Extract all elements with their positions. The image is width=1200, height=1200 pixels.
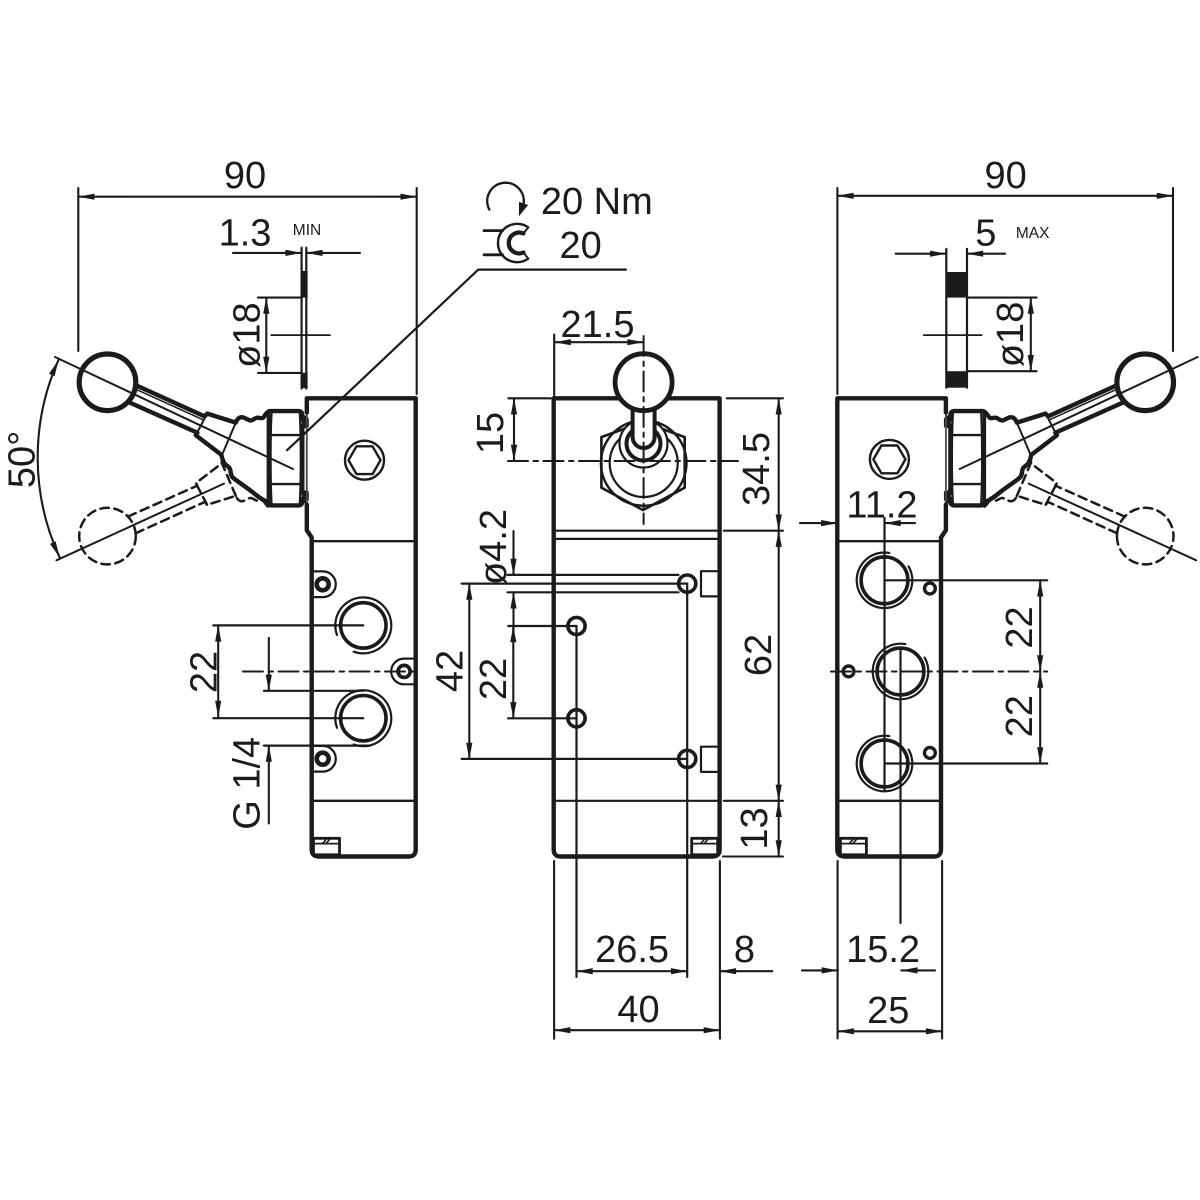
dim diameter 18 right view bbox=[967, 297, 1037, 299]
left view panel hole centre line bbox=[271, 334, 330, 336]
right view body joint line lower bbox=[837, 800, 941, 802]
torque symbol arc bbox=[487, 183, 524, 210]
left view horizontal centerline bbox=[243, 671, 416, 673]
right view hex socket screw bbox=[870, 440, 909, 479]
left view hex socket screw bbox=[345, 441, 384, 480]
middle view toggle stem bbox=[633, 404, 655, 448]
right view port 1 bold bore circle bbox=[861, 557, 908, 604]
middle view valve body outline bbox=[554, 398, 720, 856]
right view port 1 centre line bbox=[885, 579, 1048, 581]
right view horizontal centerline bbox=[831, 671, 1047, 673]
right view port 3 thread arc bbox=[857, 736, 913, 792]
nut front face edge bbox=[267, 414, 270, 503]
dim 25 bbox=[838, 1030, 942, 1032]
left view: 50 degree swing arc bbox=[38, 360, 60, 557]
right view port 3 centre line bbox=[885, 762, 1048, 764]
middle view screw hole ring bbox=[679, 750, 696, 767]
svg-text:22: 22 bbox=[183, 651, 225, 693]
right view middle port vertical centre line bbox=[899, 649, 901, 923]
right view screw hole ring bbox=[925, 583, 936, 594]
leader line from wrench to nut bbox=[287, 270, 626, 451]
dim 13 bbox=[723, 855, 783, 857]
lever axis centerline through ball to pivot bbox=[55, 357, 293, 469]
left view port 2 centre line bbox=[213, 717, 363, 719]
nut clamp tabs against panel bbox=[302, 415, 307, 425]
left view panel section fill lower bbox=[301, 373, 308, 388]
lever alternate position axis centerline bbox=[57, 484, 225, 561]
dim 11.2 bbox=[800, 522, 837, 524]
middle view diameter 4.2 tangent lines bbox=[508, 574, 679, 576]
right view mounting panel outline bbox=[945, 249, 947, 388]
right view panel hole centre line bbox=[924, 334, 982, 336]
right view lever assembly (mirrored) bbox=[946, 354, 1198, 564]
left view middle screw boss tab on right edge bbox=[391, 659, 414, 685]
svg-text:1.3: 1.3 bbox=[219, 213, 272, 255]
svg-text:15: 15 bbox=[470, 412, 512, 454]
svg-text:22: 22 bbox=[473, 658, 515, 700]
svg-text:G 1/4: G 1/4 bbox=[227, 737, 269, 830]
left view screw hole ring bbox=[317, 578, 329, 590]
left view bottom plug bbox=[314, 838, 340, 855]
svg-text:MIN: MIN bbox=[293, 222, 321, 239]
left view valve body outline bbox=[307, 398, 416, 856]
svg-text:20: 20 bbox=[559, 225, 601, 267]
svg-text:21.5: 21.5 bbox=[561, 304, 635, 346]
middle view hole centre lines bbox=[508, 625, 576, 627]
nut hex facet lines bbox=[269, 414, 272, 504]
middle view toggle ball bbox=[615, 354, 672, 411]
valve body edge behind nut bbox=[306, 412, 308, 506]
dim diameter 4.2 bbox=[512, 531, 514, 575]
lever solid silhouette: shaft, sleeve, boot and nut bbox=[128, 385, 307, 505]
right view screw hole ring bbox=[925, 748, 936, 759]
right view screw hole ring bbox=[843, 666, 854, 677]
right view ports vertical centre line bbox=[883, 518, 885, 790]
dim 90 right view bbox=[836, 188, 838, 394]
left view port 2 thread arc bbox=[335, 690, 391, 746]
left view port 1 thread arc bbox=[335, 597, 391, 653]
svg-text:34.5: 34.5 bbox=[736, 432, 778, 506]
svg-text:50°: 50° bbox=[1, 431, 43, 488]
svg-text:26.5: 26.5 bbox=[595, 929, 669, 971]
left view screw hole ring bbox=[317, 753, 329, 765]
right view panel section fill upper bbox=[946, 272, 968, 298]
left view G1/4 thread tangent lines bbox=[264, 690, 363, 692]
middle view body joint lines bbox=[554, 530, 720, 532]
middle view screw boss rects on right edge bbox=[701, 571, 719, 596]
right view port 3 bold bore circle bbox=[861, 740, 908, 787]
dim 8 bbox=[720, 970, 772, 972]
svg-text:13: 13 bbox=[734, 807, 776, 849]
wrench symbol bbox=[498, 224, 528, 262]
middle view cone circles bbox=[601, 420, 687, 506]
dim 40 bbox=[554, 1029, 720, 1031]
right view port 2 bold bore circle bbox=[877, 648, 924, 695]
dim 34.5 bbox=[727, 397, 783, 399]
dim diameter 18 left view bbox=[258, 297, 302, 299]
middle view pivot seat circles bbox=[620, 420, 668, 468]
lever shaft inner highlight line bbox=[138, 390, 203, 420]
middle view bottom extension lines bbox=[553, 861, 555, 1039]
svg-text:40: 40 bbox=[617, 989, 659, 1031]
middle view screw hole ring bbox=[679, 575, 696, 592]
left view port 1 centre line / 22 dim extension bbox=[213, 624, 363, 626]
lever ball knob (solid position) bbox=[79, 354, 136, 411]
dim 22 left view bbox=[217, 625, 219, 717]
left view body joint line lower bbox=[312, 800, 416, 802]
svg-text:ø18: ø18 bbox=[990, 302, 1032, 367]
middle view bottom plug bbox=[692, 838, 718, 855]
svg-text:MAX: MAX bbox=[1016, 225, 1050, 242]
middle view pivot horizontal centerline bbox=[508, 460, 738, 462]
dim 90 left view bbox=[77, 188, 79, 351]
dim 15 bbox=[508, 397, 551, 399]
middle view hex boss bbox=[601, 422, 684, 510]
svg-text:ø18: ø18 bbox=[227, 302, 269, 367]
svg-text:20 Nm: 20 Nm bbox=[541, 181, 653, 223]
svg-text:22: 22 bbox=[999, 606, 1041, 648]
middle view screw hole ring bbox=[568, 710, 585, 727]
svg-text:90: 90 bbox=[224, 155, 266, 197]
svg-text:5: 5 bbox=[975, 213, 996, 255]
right view bottom plug bbox=[840, 838, 866, 855]
dim 22 right view upper bbox=[1039, 580, 1041, 671]
svg-text:8: 8 bbox=[734, 929, 755, 971]
left view port 1 bold bore circle bbox=[341, 603, 386, 648]
svg-text:25: 25 bbox=[867, 990, 909, 1032]
left view mounting panel outline bbox=[301, 248, 303, 389]
dim 21.5 bbox=[553, 335, 555, 397]
middle view toggle vertical centerline bbox=[643, 336, 645, 524]
left view panel section fill upper bbox=[301, 271, 308, 298]
lever dashed alternate position ball bbox=[79, 508, 136, 565]
middle view screw hole ring bbox=[568, 617, 585, 634]
svg-text:62: 62 bbox=[738, 634, 780, 676]
right view panel section fill lower bbox=[946, 371, 968, 388]
G 1/4 label and leaders bbox=[268, 638, 270, 691]
lever dashed alternate position outline bbox=[128, 416, 270, 534]
right view port 1 thread arc bbox=[857, 552, 913, 608]
right view valve body outline bbox=[837, 398, 946, 856]
left view screw boss tab bbox=[313, 746, 336, 772]
svg-text:15.2: 15.2 bbox=[846, 929, 920, 971]
dim 1.3 MIN bbox=[233, 252, 302, 254]
svg-text:90: 90 bbox=[984, 155, 1026, 197]
lever sleeve end cap lines bbox=[196, 414, 207, 436]
svg-text:42: 42 bbox=[430, 650, 472, 692]
dim 62 bbox=[724, 800, 783, 802]
left view screw boss tab bbox=[313, 571, 336, 597]
left view port 2 bold bore circle bbox=[341, 696, 386, 741]
left view body joint line upper bbox=[312, 540, 415, 542]
right view port 2 thread arc bbox=[873, 644, 929, 700]
dim 22 middle view bbox=[512, 626, 514, 718]
svg-text:11.2: 11.2 bbox=[846, 484, 917, 526]
dim 26.5 bbox=[577, 970, 688, 972]
svg-text:ø4.2: ø4.2 bbox=[473, 509, 515, 585]
right view body joint line upper bbox=[837, 540, 940, 542]
dim 5 MAX bbox=[896, 253, 947, 255]
svg-text:22: 22 bbox=[999, 695, 1041, 737]
dim 15.2 bbox=[837, 861, 839, 1039]
left view middle screw hole ring bbox=[398, 665, 410, 677]
dim 22 right view lower bbox=[1039, 672, 1041, 764]
dim 42 bbox=[468, 584, 470, 759]
